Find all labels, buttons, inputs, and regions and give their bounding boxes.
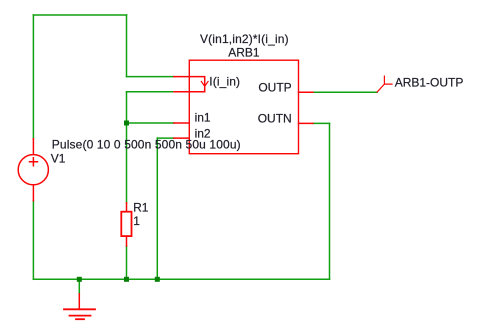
junction at in2 bottom xyxy=(155,277,160,282)
wire OUTN vertical xyxy=(329,123,331,279)
pin in1 stub xyxy=(174,122,189,124)
resistor R1 body xyxy=(121,212,131,236)
op-amp block ARB1 body xyxy=(189,60,298,154)
svg-text:Pulse(0 10 0 500n 500n 50u 100: Pulse(0 10 0 500n 500n 50u 100u) xyxy=(52,137,241,151)
svg-text:I(i_in): I(i_in) xyxy=(209,74,240,88)
wire left vertical upper xyxy=(32,15,34,139)
voltage source V1 bottom stub xyxy=(32,186,34,201)
junction at R1 bottom xyxy=(124,277,129,282)
wire in2 vertical xyxy=(156,138,158,279)
net label flag ARB1-OUTP xyxy=(377,76,392,92)
pin in2 stub xyxy=(174,137,189,139)
svg-text:ARB1: ARB1 xyxy=(228,45,260,59)
wire OUTN green xyxy=(313,122,330,124)
svg-text:OUTP: OUTP xyxy=(258,81,291,95)
wire vertical x127 middle xyxy=(126,92,128,203)
voltage source V1 plus sign xyxy=(30,158,38,166)
current arrow I(i_in) arrowhead xyxy=(201,81,208,86)
wire R1 bottom to rail xyxy=(126,246,128,279)
wire in1 horizontal xyxy=(127,122,174,124)
svg-text:V(in1,in2)*I(i_in): V(in1,in2)*I(i_in) xyxy=(200,32,289,46)
voltage source V1 circle xyxy=(18,155,48,185)
svg-text:1: 1 xyxy=(133,214,140,228)
wire bottom rail xyxy=(33,278,329,280)
wire in2 horizontal xyxy=(157,137,174,139)
ground stem red xyxy=(78,294,80,309)
pin i_in loop with stubs xyxy=(174,77,205,92)
svg-text:ARB1-OUTP: ARB1-OUTP xyxy=(395,75,464,89)
ground bar 1 xyxy=(64,308,95,310)
pin OUTN stub xyxy=(299,122,313,124)
wire OUTP green xyxy=(313,91,377,93)
svg-text:V1: V1 xyxy=(51,151,66,165)
wire top horizontal xyxy=(33,14,126,16)
wire i_in- horizontal xyxy=(127,91,174,93)
svg-text:R1: R1 xyxy=(133,201,149,215)
ground bar 2 xyxy=(70,315,91,317)
pin OUTP stub xyxy=(299,91,313,93)
junction at ground tap xyxy=(77,277,82,282)
svg-text:in1: in1 xyxy=(195,111,211,125)
resistor R1 bottom lead xyxy=(126,236,128,246)
svg-text:OUTN: OUTN xyxy=(258,112,292,126)
wire i_in+ horizontal xyxy=(127,76,174,78)
ground bar 3 xyxy=(76,318,84,320)
voltage source V1 top stub xyxy=(32,139,34,154)
wire vertical x127 upper xyxy=(126,15,128,77)
wire ground stem green xyxy=(78,279,80,294)
junction at in1 tap xyxy=(124,121,129,126)
resistor R1 top lead xyxy=(126,203,128,212)
wire V1 bottom vertical xyxy=(32,201,34,279)
